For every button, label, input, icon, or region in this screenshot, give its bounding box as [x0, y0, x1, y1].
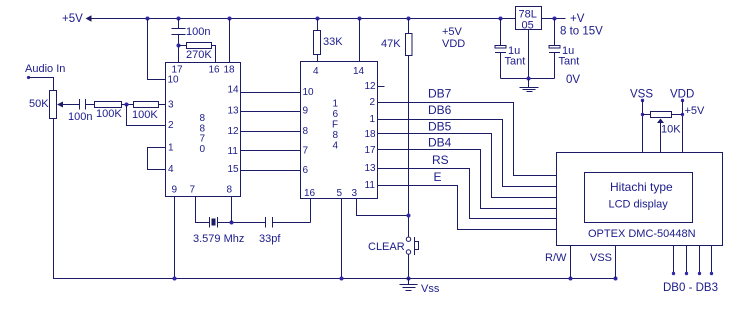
node terminal VDD	[681, 99, 684, 102]
wire IC1 pin1 to pin4 loop	[148, 148, 166, 170]
svg-text:Tant: Tant	[505, 56, 526, 68]
svg-text:9: 9	[303, 106, 309, 117]
node junction rail x147	[146, 17, 150, 21]
svg-text:14: 14	[353, 66, 365, 77]
node terminal VSS	[641, 99, 644, 102]
svg-text:Audio In: Audio In	[25, 63, 65, 75]
svg-text:VSS: VSS	[590, 252, 612, 264]
node junction rail IC2 pin5	[340, 277, 344, 281]
capacitor 100n audio coupling	[80, 99, 95, 110]
svg-text:8: 8	[303, 126, 309, 137]
wire DB0	[673, 246, 675, 274]
node junction 78L05 output	[553, 17, 557, 21]
node terminal rail end VSS	[614, 277, 618, 281]
capacitor 33pf	[266, 217, 311, 228]
svg-text:VSS: VSS	[630, 89, 653, 101]
node junction pin3 47K	[407, 214, 411, 218]
IC U2 PIC16F84 body	[301, 62, 378, 199]
node terminal DB1	[685, 272, 688, 275]
svg-text:+5V: +5V	[62, 13, 83, 25]
wire IC1 pin11 to IC2 pin7	[241, 150, 301, 152]
node junction rail x178	[177, 17, 181, 21]
svg-text:18: 18	[224, 65, 236, 76]
wire LCD VSS to rail	[615, 246, 617, 279]
wire IC1 pin12 to IC2 pin8	[241, 131, 301, 133]
svg-text:16: 16	[209, 65, 221, 76]
svg-text:VDD: VDD	[670, 89, 694, 101]
wire E	[378, 186, 557, 230]
svg-text:33pf: 33pf	[259, 233, 281, 245]
svg-text:DB4: DB4	[428, 136, 452, 150]
svg-text:RS: RS	[432, 153, 449, 167]
svg-text:10K: 10K	[661, 124, 681, 136]
svg-text:DB6: DB6	[428, 103, 452, 117]
svg-text:12: 12	[365, 81, 377, 92]
svg-text:4: 4	[168, 164, 174, 175]
node junction pin8 crystal	[230, 221, 234, 225]
svg-text:+5V: +5V	[685, 105, 706, 117]
node junction ground 0V	[527, 77, 531, 81]
svg-text:4: 4	[333, 141, 339, 152]
svg-text:13: 13	[228, 106, 240, 117]
svg-text:100n: 100n	[68, 111, 92, 123]
svg-text:100K: 100K	[132, 109, 158, 121]
wire IC1 pin14 to IC2 pin10	[241, 92, 301, 94]
node junction rail x408	[407, 17, 411, 21]
wire 78L05 common down	[528, 30, 530, 79]
wire junction to IC1 pin2	[127, 105, 166, 126]
svg-text:F: F	[332, 120, 338, 131]
node terminal DB0	[672, 272, 675, 275]
svg-text:E: E	[434, 170, 442, 184]
wire rail to IC1 pin10	[148, 19, 166, 80]
capacitor C 1u Tant input side	[495, 19, 506, 79]
wire 33pf up to IC2 pin16	[310, 199, 312, 223]
svg-text:7: 7	[190, 184, 196, 195]
wire +5V rail	[91, 18, 516, 20]
svg-text:270K: 270K	[186, 49, 212, 61]
wire IC1 pin7 down to crystal	[196, 197, 210, 223]
svg-text:R/W: R/W	[545, 252, 567, 264]
svg-text:12: 12	[228, 126, 240, 137]
potentiometer 10K contrast	[651, 112, 672, 153]
node junction clear ground	[407, 277, 411, 281]
svg-text:4: 4	[313, 66, 319, 77]
wire IC1 pin9 to ground rail	[174, 197, 176, 279]
wire 78L05 output	[542, 18, 566, 20]
wire DB1	[686, 246, 688, 274]
crystal X1 3.579 Mhz	[210, 217, 266, 228]
node junction rail x317	[316, 17, 320, 21]
svg-text:10: 10	[168, 75, 180, 86]
svg-text:50K: 50K	[29, 98, 49, 110]
wire RS	[378, 169, 557, 219]
svg-text:8: 8	[333, 130, 339, 141]
svg-text:Vss: Vss	[421, 283, 440, 295]
node junction pot right	[681, 113, 684, 116]
svg-text:17: 17	[365, 145, 377, 156]
node junction rail RW	[569, 277, 573, 281]
svg-text:Hitachi type: Hitachi type	[610, 180, 673, 194]
svg-text:8: 8	[227, 184, 233, 195]
svg-text:13: 13	[365, 163, 377, 174]
wire DB5	[378, 134, 557, 198]
svg-text:0: 0	[200, 144, 206, 155]
svg-text:14: 14	[228, 85, 240, 96]
resistor 100K second	[134, 102, 166, 108]
svg-text:16: 16	[304, 188, 316, 199]
wire VSS down to LCD	[642, 101, 644, 153]
+5V arrow	[86, 15, 92, 21]
svg-text:6: 6	[333, 109, 339, 120]
node junction rail IC1 pin9	[173, 277, 177, 281]
node junction rail x359	[358, 17, 362, 21]
resistor 33K	[314, 19, 321, 62]
capacitor C 1u Tant output side	[549, 19, 560, 79]
svg-text:10: 10	[303, 87, 315, 98]
svg-text:100n: 100n	[186, 26, 210, 38]
node junction rail x500	[499, 17, 503, 21]
wire pot left	[643, 114, 651, 116]
svg-text:DB0 - DB3: DB0 - DB3	[663, 282, 718, 294]
wire IC2 pin3 to 47K net	[357, 199, 409, 216]
node junction rail x229	[228, 17, 232, 21]
wire DB6	[378, 120, 557, 187]
wire rail to IC2 pin14	[359, 19, 361, 62]
svg-text:100K: 100K	[96, 108, 122, 120]
svg-text:3.579 Mhz: 3.579 Mhz	[193, 233, 244, 245]
svg-text:1: 1	[168, 142, 174, 153]
node junction between 100K resistors	[125, 103, 129, 107]
node Audio In terminal	[27, 76, 30, 79]
resistor 100K first	[95, 102, 134, 108]
capacitor C 100n (St/GT)	[172, 19, 186, 63]
wire DB3	[711, 246, 713, 274]
svg-text:5: 5	[337, 188, 343, 199]
resistor 270K	[179, 43, 216, 63]
svg-text:1: 1	[333, 99, 339, 110]
node terminal DB2	[698, 272, 701, 275]
svg-text:2: 2	[168, 120, 174, 131]
wire IC1 pin15 to IC2 pin6	[241, 170, 301, 172]
wire ground rail bottom	[53, 278, 616, 280]
svg-text:9: 9	[172, 184, 178, 195]
svg-text:DB7: DB7	[428, 87, 452, 101]
ground symbol Vss	[400, 279, 418, 291]
svg-text:2: 2	[370, 97, 376, 108]
potentiometer VR1 50K	[50, 91, 80, 119]
wire LCD RW to rail	[570, 246, 572, 279]
svg-text:47K: 47K	[381, 38, 401, 50]
svg-text:Tant: Tant	[559, 56, 580, 68]
wire DB7	[378, 103, 557, 176]
wire DB4	[378, 150, 557, 209]
wire IC2 pin12 stub	[378, 86, 385, 88]
LCD module body	[557, 153, 723, 246]
IC U1 MT8870 body	[166, 63, 241, 197]
wire DB2	[699, 246, 701, 274]
wire caps bottom bus	[501, 78, 555, 80]
resistor 47K	[406, 19, 413, 238]
switch CLEAR pushbutton	[406, 237, 418, 279]
svg-text:8 to 15V: 8 to 15V	[560, 26, 603, 38]
wire VDD down to LCD	[682, 101, 684, 153]
wire pot bottom to ground rail	[53, 119, 55, 279]
svg-text:1: 1	[370, 114, 376, 125]
wire audio terminal to pot	[29, 78, 54, 91]
wire IC1 pin8 down	[231, 197, 233, 223]
svg-text:VDD: VDD	[442, 38, 465, 50]
svg-text:18: 18	[365, 129, 377, 140]
svg-text:0V: 0V	[566, 74, 580, 86]
svg-text:OPTEX DMC-50448N: OPTEX DMC-50448N	[588, 228, 696, 240]
wire rail to IC1 pin18	[229, 19, 231, 63]
svg-text:LCD display: LCD display	[609, 199, 669, 211]
svg-text:11: 11	[365, 180, 376, 191]
ground symbol 0V	[520, 79, 539, 92]
svg-text:3: 3	[352, 188, 358, 199]
svg-text:05: 05	[522, 20, 534, 32]
wire pot right	[672, 114, 683, 116]
svg-text:11: 11	[228, 146, 239, 157]
wire IC2 pin5 to ground rail	[341, 199, 343, 279]
node junction x178 y45	[177, 44, 181, 48]
svg-text:+5V: +5V	[442, 26, 463, 38]
node junction pot left	[641, 113, 644, 116]
wire IC1 pin13 to IC2 pin9	[241, 111, 301, 113]
LCD inner screen	[585, 173, 693, 223]
svg-text:CLEAR: CLEAR	[368, 241, 405, 253]
svg-text:33K: 33K	[323, 36, 343, 48]
svg-text:DB5: DB5	[428, 120, 452, 134]
svg-text:15: 15	[228, 164, 240, 175]
svg-text:7: 7	[303, 145, 309, 156]
svg-text:+V: +V	[570, 13, 585, 25]
svg-text:6: 6	[303, 165, 309, 176]
regulator U3 78L05	[516, 7, 542, 32]
node terminal DB3	[710, 272, 713, 275]
svg-text:3: 3	[168, 100, 174, 111]
